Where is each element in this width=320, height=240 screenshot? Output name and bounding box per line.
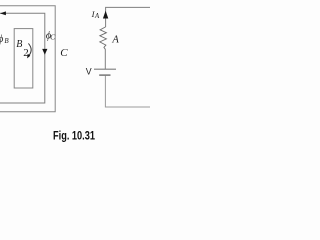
flux arrowhead down (phi_C direction) [42,49,47,55]
svg-text:B: B [4,37,9,45]
svg-text:B: B [16,39,22,50]
svg-text:A: A [111,34,119,45]
coil B rectangle [14,29,33,88]
flux loop wire [0,13,45,103]
svg-text:Fig. 10.31: Fig. 10.31 [53,130,95,142]
current arrowhead I_A [103,11,108,19]
svg-text:ϕ: ϕ [0,34,3,45]
svg-text:C: C [60,47,68,59]
svg-text:A: A [94,12,100,20]
circuit bottom wire [105,76,150,107]
wire resistor to battery [104,49,106,69]
battery V long plate [94,68,116,70]
coil C outer loop [0,6,55,112]
arc arrowhead [27,54,30,59]
flux arrowhead left (phi_B direction) [0,11,6,15]
svg-text:2: 2 [23,47,29,59]
resistor A zigzag [100,27,107,49]
circuit top wire [106,7,150,27]
svg-text:V: V [86,67,92,77]
battery V short plate [99,74,110,76]
winding-sense arc in coil B [28,43,31,55]
